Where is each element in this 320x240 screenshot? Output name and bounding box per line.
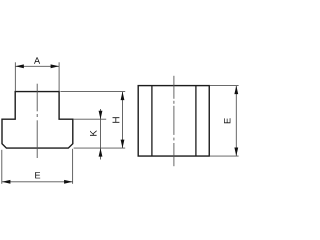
dimension H arrow top [121,92,125,101]
dimension K upper outside arrow [100,109,102,119]
dimension E (side) extension line bottom [210,155,239,157]
label E side [224,118,230,123]
dimension E (front) arrow right [64,180,73,184]
dimension A line [15,65,59,67]
dimension E (front) arrow left [2,180,11,184]
dimension A extension line left [14,62,16,91]
side view inner edge right [195,86,197,156]
dimension E (side) line [235,86,237,156]
centerline front view [36,84,38,158]
dimension H arrow bottom [121,140,125,149]
dimension E (front) extension line right [72,149,74,184]
dimension E (front) extension line left [1,150,3,184]
dimension K lower outside arrow [100,148,102,159]
dimension A extension line right [58,62,60,91]
dimension H extension line bottom [74,147,126,149]
side view inner edge left [151,86,153,156]
dimension E (side) extension line top [210,85,239,87]
dimension E (front) line [2,181,73,183]
dimension A arrow left [15,64,24,68]
dimension A arrow right [51,64,60,68]
dimension H line [122,92,124,149]
dimension K extension line [74,118,107,120]
T-nut front view outline [2,92,73,149]
label H [113,117,120,123]
label K [90,130,97,136]
centerline side view [173,76,175,166]
dimension E (side) arrow bottom [234,148,238,157]
label E front [35,172,40,178]
label A [34,57,40,63]
side view outline rectangle [138,86,209,156]
dimension H extension line top [60,91,125,93]
dimension E (side) arrow top [234,86,238,95]
dimension K line [100,119,102,148]
